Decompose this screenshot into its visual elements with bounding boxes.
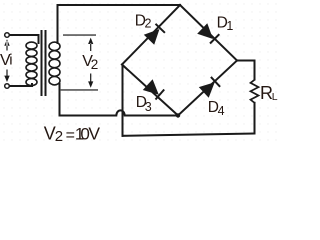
diode D2 [144, 29, 160, 45]
svg-text:2: 2 [145, 16, 152, 30]
svg-text:2: 2 [55, 128, 63, 145]
diode D4 [199, 82, 215, 98]
input terminal top [5, 33, 10, 38]
V2 reference tick bottom [60, 89, 98, 91]
wire load bottom lead [254, 103, 256, 134]
wire bridge arm top-right [180, 5, 237, 61]
Vi arrow down [4, 70, 9, 83]
svg-text:i: i [9, 52, 12, 69]
wire bridge arm bottom-right [178, 61, 237, 116]
diode D3 [143, 79, 159, 95]
Vi arrow up [4, 39, 9, 50]
input terminal bottom [5, 84, 10, 89]
wire primary bottom lead [10, 84, 33, 86]
svg-text:=: = [66, 127, 75, 144]
svg-text:V: V [88, 124, 100, 144]
svg-text:1: 1 [226, 19, 233, 33]
wire primary top lead [10, 35, 39, 43]
wire bridge arm top-left [122, 5, 180, 65]
V2 reference tick top [63, 34, 96, 36]
V2 arrow up [88, 38, 93, 51]
V2 arrow down [88, 74, 93, 88]
diode D1 [197, 23, 213, 39]
wire bridge left node down [122, 65, 124, 136]
resistor RL [251, 80, 259, 103]
node bottom junction [176, 113, 180, 117]
svg-text:2: 2 [91, 57, 99, 72]
svg-text:3: 3 [145, 100, 152, 114]
transformer core [42, 31, 46, 95]
transformer secondary winding [49, 42, 60, 85]
transformer primary winding [26, 42, 37, 86]
svg-text:4: 4 [218, 104, 225, 118]
wire secondary bottom to bridge bottom node with crossover hop [60, 84, 179, 116]
wire bridge arm bottom-left [122, 65, 178, 116]
wire bottom return [123, 134, 255, 136]
wire right node to load [237, 61, 255, 80]
wire secondary top to bridge top node [58, 5, 181, 43]
svg-text:L: L [272, 91, 278, 103]
